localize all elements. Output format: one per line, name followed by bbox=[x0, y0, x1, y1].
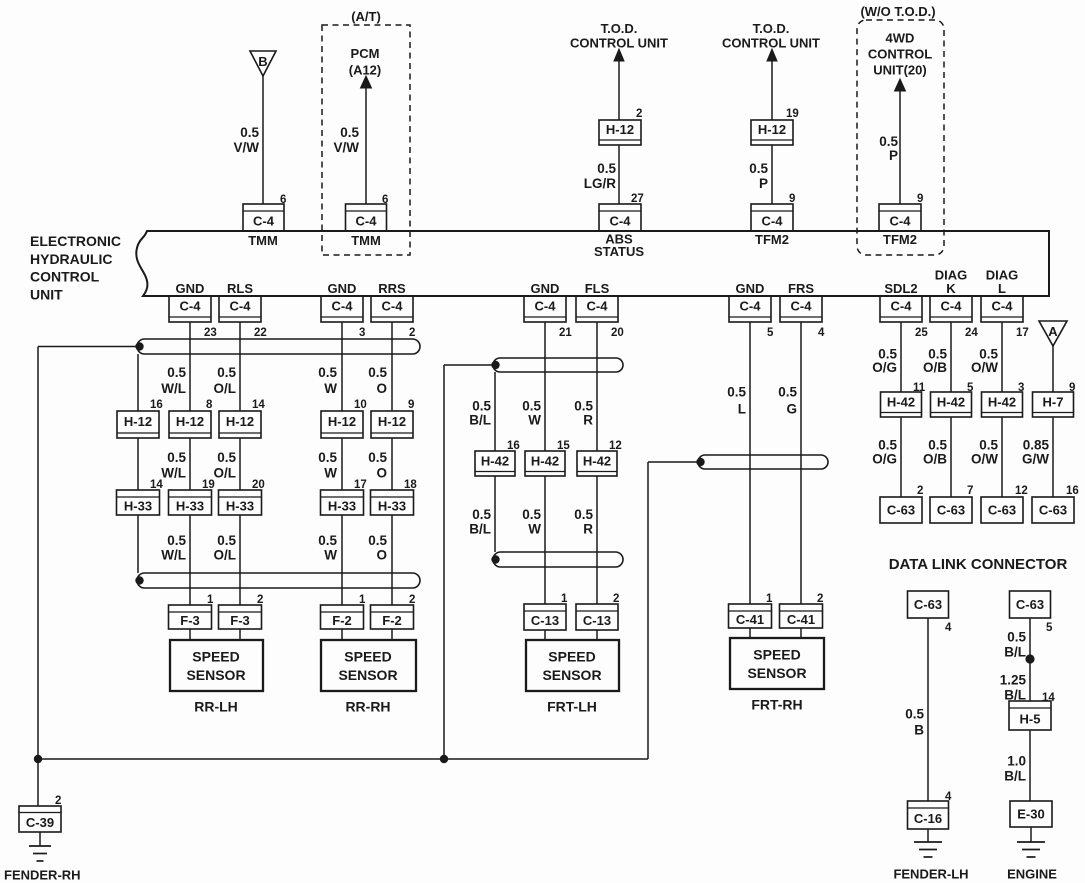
svg-text:0.5: 0.5 bbox=[749, 161, 768, 176]
svg-text:1.0: 1.0 bbox=[1007, 754, 1026, 769]
svg-text:SPEED: SPEED bbox=[548, 649, 595, 665]
svg-text:HYDRAULIC: HYDRAULIC bbox=[30, 251, 112, 267]
svg-text:C-63: C-63 bbox=[887, 503, 915, 518]
svg-text:GND: GND bbox=[328, 281, 357, 296]
svg-text:0.5: 0.5 bbox=[574, 399, 593, 414]
svg-text:C-4: C-4 bbox=[992, 299, 1014, 314]
svg-text:0.5: 0.5 bbox=[318, 450, 337, 465]
svg-text:0.5: 0.5 bbox=[217, 533, 236, 548]
svg-text:C-63: C-63 bbox=[988, 503, 1016, 518]
svg-text:0.5: 0.5 bbox=[522, 399, 541, 414]
svg-text:0.5: 0.5 bbox=[340, 125, 359, 140]
svg-text:FRT-RH: FRT-RH bbox=[751, 697, 802, 713]
svg-text:C-4: C-4 bbox=[535, 299, 557, 314]
svg-text:SPEED: SPEED bbox=[192, 649, 239, 665]
svg-text:H-7: H-7 bbox=[1043, 394, 1064, 409]
svg-text:W: W bbox=[528, 413, 541, 428]
svg-text:O/B: O/B bbox=[923, 452, 947, 467]
svg-text:(A12): (A12) bbox=[349, 63, 382, 78]
svg-text:B/L: B/L bbox=[1004, 769, 1026, 784]
svg-text:H-42: H-42 bbox=[583, 453, 611, 468]
svg-text:C-4: C-4 bbox=[587, 299, 609, 314]
svg-text:2: 2 bbox=[613, 593, 619, 605]
svg-text:18: 18 bbox=[404, 479, 417, 491]
svg-text:0.85: 0.85 bbox=[1023, 438, 1050, 453]
svg-text:C-4: C-4 bbox=[230, 299, 252, 314]
svg-text:8: 8 bbox=[206, 399, 213, 411]
svg-text:O/G: O/G bbox=[872, 452, 897, 467]
svg-text:0.5: 0.5 bbox=[368, 365, 387, 380]
svg-text:K: K bbox=[946, 281, 956, 296]
svg-text:9: 9 bbox=[789, 193, 795, 205]
svg-text:B/L: B/L bbox=[469, 522, 491, 537]
svg-text:H-42: H-42 bbox=[887, 394, 915, 409]
svg-text:22: 22 bbox=[254, 327, 267, 339]
svg-text:B/L: B/L bbox=[1004, 645, 1026, 660]
svg-text:F-3: F-3 bbox=[180, 613, 200, 628]
svg-text:C-4: C-4 bbox=[610, 214, 632, 229]
svg-text:FLS: FLS bbox=[585, 281, 610, 296]
svg-text:GND: GND bbox=[736, 281, 765, 296]
svg-text:UNIT(20): UNIT(20) bbox=[873, 63, 926, 78]
svg-text:B: B bbox=[914, 723, 924, 738]
svg-text:CONTROL UNIT: CONTROL UNIT bbox=[722, 36, 820, 51]
svg-text:2: 2 bbox=[817, 593, 823, 605]
svg-text:H-5: H-5 bbox=[1020, 712, 1041, 727]
svg-text:FENDER-LH: FENDER-LH bbox=[893, 867, 968, 882]
svg-text:CONTROL: CONTROL bbox=[868, 47, 932, 62]
svg-text:23: 23 bbox=[204, 327, 217, 339]
svg-text:11: 11 bbox=[913, 382, 926, 394]
svg-text:PCM: PCM bbox=[351, 46, 380, 61]
svg-text:RRS: RRS bbox=[378, 281, 406, 296]
svg-text:27: 27 bbox=[631, 193, 644, 205]
svg-text:T.O.D.: T.O.D. bbox=[753, 21, 790, 36]
svg-text:SENSOR: SENSOR bbox=[747, 665, 806, 681]
svg-text:O/W: O/W bbox=[971, 360, 998, 375]
svg-text:9: 9 bbox=[408, 399, 414, 411]
svg-text:14: 14 bbox=[1042, 692, 1055, 704]
svg-text:C-4: C-4 bbox=[356, 214, 378, 229]
svg-text:2: 2 bbox=[409, 594, 415, 606]
svg-text:2: 2 bbox=[55, 795, 61, 807]
svg-text:H-12: H-12 bbox=[226, 414, 254, 429]
svg-text:1: 1 bbox=[359, 594, 366, 606]
svg-text:SDL2: SDL2 bbox=[884, 281, 917, 296]
svg-text:O: O bbox=[376, 548, 387, 563]
svg-text:1: 1 bbox=[766, 593, 773, 605]
svg-text:C-4: C-4 bbox=[941, 299, 963, 314]
svg-text:H-33: H-33 bbox=[328, 499, 356, 514]
svg-text:W/L: W/L bbox=[161, 466, 186, 481]
svg-text:H-33: H-33 bbox=[226, 499, 254, 514]
svg-text:F-2: F-2 bbox=[332, 613, 352, 628]
svg-text:O/W: O/W bbox=[971, 452, 998, 467]
svg-text:14: 14 bbox=[252, 399, 265, 411]
svg-text:0.5: 0.5 bbox=[878, 438, 897, 453]
svg-text:C-63: C-63 bbox=[937, 503, 965, 518]
svg-text:C-41: C-41 bbox=[787, 612, 815, 627]
svg-text:V/W: V/W bbox=[234, 140, 260, 155]
svg-text:SPEED: SPEED bbox=[344, 649, 391, 665]
svg-text:20: 20 bbox=[611, 327, 624, 339]
svg-text:RR-RH: RR-RH bbox=[345, 699, 390, 715]
svg-text:UNIT: UNIT bbox=[30, 286, 63, 302]
svg-text:24: 24 bbox=[965, 327, 978, 339]
svg-text:19: 19 bbox=[786, 108, 799, 120]
svg-text:H-12: H-12 bbox=[328, 414, 356, 429]
svg-text:O: O bbox=[376, 466, 387, 481]
svg-text:A: A bbox=[1048, 324, 1058, 339]
svg-text:0.5: 0.5 bbox=[727, 385, 746, 400]
svg-text:2: 2 bbox=[636, 108, 642, 120]
svg-text:19: 19 bbox=[202, 479, 215, 491]
svg-text:O/B: O/B bbox=[923, 360, 947, 375]
svg-text:1.25: 1.25 bbox=[1000, 673, 1027, 688]
svg-text:W: W bbox=[528, 522, 541, 537]
svg-text:5: 5 bbox=[1046, 622, 1053, 634]
svg-text:FENDER-RH: FENDER-RH bbox=[4, 868, 81, 883]
svg-text:C-39: C-39 bbox=[26, 815, 54, 830]
svg-text:(A/T): (A/T) bbox=[351, 9, 381, 24]
svg-text:C-4: C-4 bbox=[180, 299, 202, 314]
svg-text:4: 4 bbox=[945, 622, 952, 634]
svg-text:T.O.D.: T.O.D. bbox=[601, 21, 638, 36]
svg-text:0.5: 0.5 bbox=[928, 438, 947, 453]
svg-text:C-4: C-4 bbox=[762, 214, 784, 229]
svg-text:3: 3 bbox=[1018, 382, 1024, 394]
svg-text:L: L bbox=[738, 402, 746, 417]
svg-text:25: 25 bbox=[915, 327, 928, 339]
svg-text:H-12: H-12 bbox=[176, 414, 204, 429]
svg-text:2: 2 bbox=[917, 485, 923, 497]
svg-text:2: 2 bbox=[409, 327, 415, 339]
svg-text:0.5: 0.5 bbox=[522, 507, 541, 522]
svg-text:RLS: RLS bbox=[227, 281, 253, 296]
svg-text:C-63: C-63 bbox=[914, 597, 942, 612]
svg-text:P: P bbox=[759, 176, 768, 191]
svg-text:B/L: B/L bbox=[469, 413, 491, 428]
svg-text:H-33: H-33 bbox=[378, 499, 406, 514]
svg-text:0.5: 0.5 bbox=[167, 533, 186, 548]
svg-text:0.5: 0.5 bbox=[318, 533, 337, 548]
svg-text:20: 20 bbox=[252, 479, 265, 491]
svg-text:4: 4 bbox=[945, 791, 952, 803]
svg-text:C-4: C-4 bbox=[740, 299, 762, 314]
svg-text:6: 6 bbox=[382, 194, 388, 206]
svg-text:C-4: C-4 bbox=[253, 214, 275, 229]
svg-text:0.5: 0.5 bbox=[217, 450, 236, 465]
svg-text:F-3: F-3 bbox=[230, 613, 250, 628]
svg-text:SENSOR: SENSOR bbox=[542, 667, 601, 683]
svg-text:SENSOR: SENSOR bbox=[338, 667, 397, 683]
svg-text:2: 2 bbox=[257, 594, 263, 606]
svg-text:16: 16 bbox=[507, 440, 520, 452]
svg-text:H-42: H-42 bbox=[531, 453, 559, 468]
svg-text:17: 17 bbox=[1016, 327, 1029, 339]
svg-text:12: 12 bbox=[1015, 485, 1028, 497]
svg-text:H-33: H-33 bbox=[176, 499, 204, 514]
svg-text:16: 16 bbox=[150, 399, 163, 411]
svg-text:0.5: 0.5 bbox=[597, 161, 616, 176]
svg-text:GND: GND bbox=[176, 281, 205, 296]
svg-text:5: 5 bbox=[967, 382, 974, 394]
svg-text:0.5: 0.5 bbox=[167, 450, 186, 465]
svg-text:W: W bbox=[324, 381, 337, 396]
svg-text:LG/R: LG/R bbox=[584, 176, 616, 191]
svg-text:C-63: C-63 bbox=[1039, 503, 1067, 518]
svg-text:4WD: 4WD bbox=[886, 31, 915, 46]
svg-text:O/G: O/G bbox=[872, 360, 897, 375]
svg-text:SPEED: SPEED bbox=[753, 647, 800, 663]
svg-text:DATA LINK CONNECTOR: DATA LINK CONNECTOR bbox=[889, 556, 1068, 573]
svg-text:GND: GND bbox=[531, 281, 560, 296]
svg-text:0.5: 0.5 bbox=[879, 134, 898, 149]
svg-text:P: P bbox=[889, 148, 898, 163]
svg-text:RR-LH: RR-LH bbox=[194, 699, 238, 715]
svg-text:0.5: 0.5 bbox=[472, 399, 491, 414]
svg-text:C-4: C-4 bbox=[382, 299, 404, 314]
svg-text:0.5: 0.5 bbox=[217, 365, 236, 380]
svg-text:0.5: 0.5 bbox=[167, 365, 186, 380]
svg-text:H-42: H-42 bbox=[937, 394, 965, 409]
svg-text:ELECTRONIC: ELECTRONIC bbox=[30, 233, 121, 249]
svg-text:TFM2: TFM2 bbox=[755, 232, 789, 247]
svg-text:C-13: C-13 bbox=[531, 613, 559, 628]
svg-text:G/W: G/W bbox=[1022, 452, 1049, 467]
svg-text:3: 3 bbox=[359, 327, 365, 339]
svg-text:V/W: V/W bbox=[334, 140, 360, 155]
svg-text:C-4: C-4 bbox=[791, 299, 813, 314]
svg-text:TMM: TMM bbox=[351, 233, 381, 248]
svg-text:C-4: C-4 bbox=[891, 299, 913, 314]
svg-text:ENGINE: ENGINE bbox=[1007, 867, 1057, 882]
svg-text:7: 7 bbox=[967, 485, 973, 497]
svg-text:C-4: C-4 bbox=[332, 299, 354, 314]
svg-text:W/L: W/L bbox=[161, 548, 186, 563]
svg-text:L: L bbox=[998, 281, 1006, 296]
svg-text:9: 9 bbox=[1069, 382, 1075, 394]
svg-text:FRS: FRS bbox=[788, 281, 814, 296]
svg-text:H-12: H-12 bbox=[124, 414, 152, 429]
svg-text:10: 10 bbox=[354, 399, 367, 411]
svg-text:C-63: C-63 bbox=[1016, 597, 1044, 612]
svg-text:C-41: C-41 bbox=[736, 612, 764, 627]
svg-text:C-4: C-4 bbox=[890, 214, 912, 229]
svg-text:STATUS: STATUS bbox=[594, 244, 644, 259]
svg-text:0.5: 0.5 bbox=[574, 507, 593, 522]
svg-text:1: 1 bbox=[561, 593, 568, 605]
svg-text:H-33: H-33 bbox=[124, 499, 152, 514]
svg-text:SENSOR: SENSOR bbox=[186, 667, 245, 683]
svg-text:R: R bbox=[583, 522, 593, 537]
svg-text:C-13: C-13 bbox=[583, 613, 611, 628]
svg-text:W/L: W/L bbox=[161, 381, 186, 396]
svg-text:9: 9 bbox=[917, 193, 923, 205]
svg-text:21: 21 bbox=[559, 327, 572, 339]
svg-text:B: B bbox=[258, 54, 267, 69]
svg-text:R: R bbox=[583, 413, 593, 428]
svg-text:W: W bbox=[324, 466, 337, 481]
svg-text:0.5: 0.5 bbox=[472, 507, 491, 522]
svg-text:15: 15 bbox=[557, 440, 570, 452]
svg-text:0.5: 0.5 bbox=[979, 438, 998, 453]
svg-text:H-42: H-42 bbox=[988, 394, 1016, 409]
svg-text:H-12: H-12 bbox=[606, 122, 634, 137]
svg-text:H-12: H-12 bbox=[758, 122, 786, 137]
svg-text:0.5: 0.5 bbox=[368, 450, 387, 465]
svg-text:0.5: 0.5 bbox=[778, 385, 797, 400]
svg-text:6: 6 bbox=[280, 194, 286, 206]
svg-text:0.5: 0.5 bbox=[1007, 630, 1026, 645]
svg-text:G: G bbox=[786, 402, 797, 417]
svg-text:O: O bbox=[376, 381, 387, 396]
svg-text:12: 12 bbox=[609, 440, 622, 452]
svg-text:TFM2: TFM2 bbox=[883, 232, 917, 247]
svg-text:W: W bbox=[324, 548, 337, 563]
svg-text:C-16: C-16 bbox=[914, 811, 942, 826]
svg-text:H-42: H-42 bbox=[481, 453, 509, 468]
svg-text:TMM: TMM bbox=[248, 233, 278, 248]
svg-text:16: 16 bbox=[1066, 485, 1079, 497]
svg-text:5: 5 bbox=[767, 327, 774, 339]
svg-text:O/L: O/L bbox=[214, 548, 237, 563]
svg-text:14: 14 bbox=[150, 479, 163, 491]
svg-text:FRT-LH: FRT-LH bbox=[547, 699, 597, 715]
svg-text:0.5: 0.5 bbox=[318, 365, 337, 380]
svg-text:(W/O T.O.D.): (W/O T.O.D.) bbox=[860, 4, 935, 19]
svg-text:CONTROL: CONTROL bbox=[30, 269, 100, 285]
svg-text:E-30: E-30 bbox=[1017, 807, 1044, 822]
svg-text:O/L: O/L bbox=[214, 381, 237, 396]
svg-text:0.5: 0.5 bbox=[368, 533, 387, 548]
svg-text:0.5: 0.5 bbox=[240, 125, 259, 140]
svg-text:17: 17 bbox=[354, 479, 367, 491]
svg-text:F-2: F-2 bbox=[382, 613, 402, 628]
svg-text:1: 1 bbox=[207, 594, 214, 606]
svg-text:H-12: H-12 bbox=[378, 414, 406, 429]
svg-text:0.5: 0.5 bbox=[905, 707, 924, 722]
svg-text:O/L: O/L bbox=[214, 466, 237, 481]
svg-text:4: 4 bbox=[818, 327, 825, 339]
